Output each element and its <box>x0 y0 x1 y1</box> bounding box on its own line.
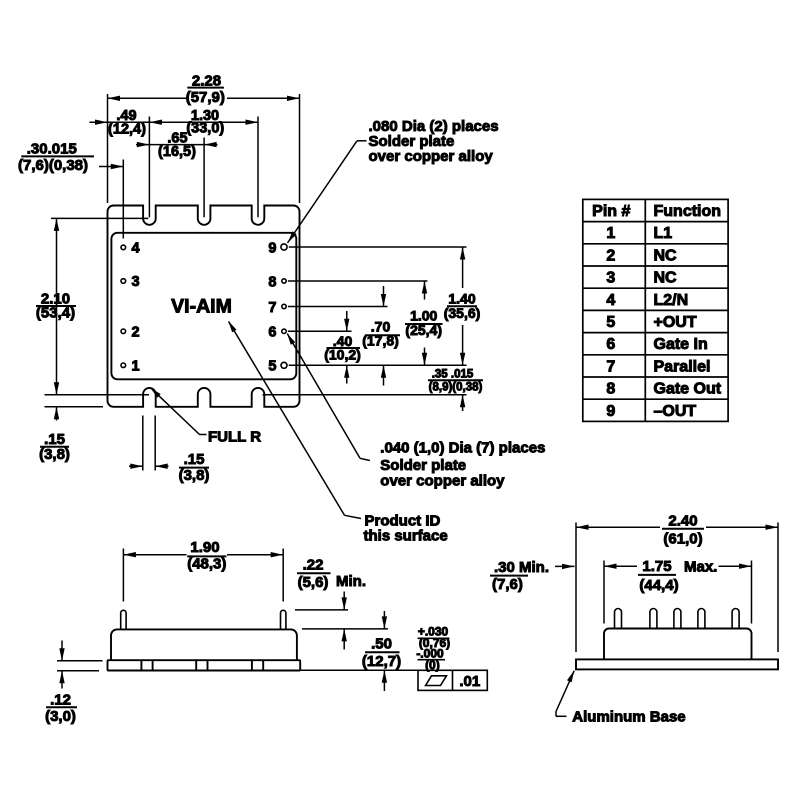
svg-text:(48,3): (48,3) <box>187 555 226 572</box>
svg-text:.50: .50 <box>371 636 392 653</box>
svg-text:(8,9)(0,38): (8,9)(0,38) <box>429 382 483 394</box>
svg-text:4: 4 <box>606 292 615 309</box>
svg-text:+OUT: +OUT <box>654 314 697 331</box>
svg-text:(53,4): (53,4) <box>36 304 75 321</box>
svg-text:1.40: 1.40 <box>448 290 475 306</box>
svg-text:9: 9 <box>606 403 615 420</box>
svg-text:(5,6): (5,6) <box>298 574 329 591</box>
svg-text:over copper alloy: over copper alloy <box>380 472 505 489</box>
svg-text:1.00: 1.00 <box>410 307 437 323</box>
svg-text:Max.: Max. <box>684 559 717 576</box>
svg-text:(25,4): (25,4) <box>405 322 442 338</box>
svg-text:(3,0): (3,0) <box>45 708 76 725</box>
svg-text:1: 1 <box>132 358 140 374</box>
svg-text:1.75: 1.75 <box>642 558 671 575</box>
svg-text:8: 8 <box>606 381 615 398</box>
svg-text:.15: .15 <box>184 451 205 468</box>
svg-text:2: 2 <box>606 247 615 264</box>
svg-text:Gate In: Gate In <box>654 336 708 353</box>
svg-text:1.90: 1.90 <box>190 539 219 556</box>
svg-text:(57,9): (57,9) <box>186 89 225 106</box>
svg-text:(12,7): (12,7) <box>362 653 401 670</box>
svg-text:.040 (1,0) Dia (7) places: .040 (1,0) Dia (7) places <box>380 440 545 457</box>
svg-text:(17,8): (17,8) <box>362 333 399 349</box>
svg-text:3: 3 <box>132 274 140 290</box>
svg-text:3: 3 <box>606 270 615 287</box>
svg-text:FULL R: FULL R <box>208 429 261 446</box>
svg-text:.30.015: .30.015 <box>27 141 77 158</box>
svg-text:(7,6): (7,6) <box>492 576 523 593</box>
svg-text:(35,6): (35,6) <box>444 305 481 321</box>
svg-text:(12,4): (12,4) <box>108 122 146 138</box>
svg-text:(10,2): (10,2) <box>324 346 361 362</box>
svg-text:Pin #: Pin # <box>592 203 630 220</box>
svg-text:4: 4 <box>132 240 140 256</box>
svg-text:6: 6 <box>606 336 615 353</box>
svg-text:Aluminum Base: Aluminum Base <box>572 708 685 725</box>
svg-text:7: 7 <box>606 358 615 375</box>
svg-text:8: 8 <box>268 274 276 290</box>
svg-text:L1: L1 <box>654 225 673 242</box>
svg-text:.30 Min.: .30 Min. <box>494 559 549 576</box>
svg-text:5: 5 <box>268 359 276 375</box>
svg-text:Parallel: Parallel <box>654 358 711 375</box>
svg-text:L2/N: L2/N <box>654 292 689 309</box>
svg-text:.22: .22 <box>303 557 324 574</box>
svg-text:NC: NC <box>654 270 678 287</box>
svg-text:2.40: 2.40 <box>668 512 697 529</box>
svg-text:1: 1 <box>606 225 615 242</box>
svg-text:9: 9 <box>268 240 276 256</box>
svg-text:Function: Function <box>654 203 722 220</box>
svg-text:Gate Out: Gate Out <box>654 381 722 398</box>
svg-text:.12: .12 <box>50 691 71 708</box>
svg-text:.35 .015: .35 .015 <box>432 369 474 381</box>
svg-text:(61,0): (61,0) <box>663 531 702 548</box>
svg-text:6: 6 <box>268 325 276 341</box>
svg-text:(7,6)(0,38): (7,6)(0,38) <box>18 157 88 174</box>
svg-text:5: 5 <box>606 314 615 331</box>
svg-text:over copper alloy: over copper alloy <box>369 148 494 165</box>
svg-text:(16,5): (16,5) <box>158 144 196 160</box>
svg-text:(3,8): (3,8) <box>39 446 70 463</box>
svg-text:2: 2 <box>132 324 140 340</box>
svg-text:7: 7 <box>268 300 276 316</box>
svg-text:(3,8): (3,8) <box>179 467 210 484</box>
svg-text:(44,4): (44,4) <box>639 577 678 594</box>
svg-text:–OUT: –OUT <box>654 403 697 420</box>
svg-text:.01: .01 <box>459 673 480 690</box>
svg-text:NC: NC <box>654 247 678 264</box>
svg-text:VI-AIM: VI-AIM <box>171 296 232 318</box>
svg-text:this surface: this surface <box>364 527 448 544</box>
svg-text:(33,0): (33,0) <box>186 120 224 136</box>
svg-text:Min.: Min. <box>336 573 366 590</box>
